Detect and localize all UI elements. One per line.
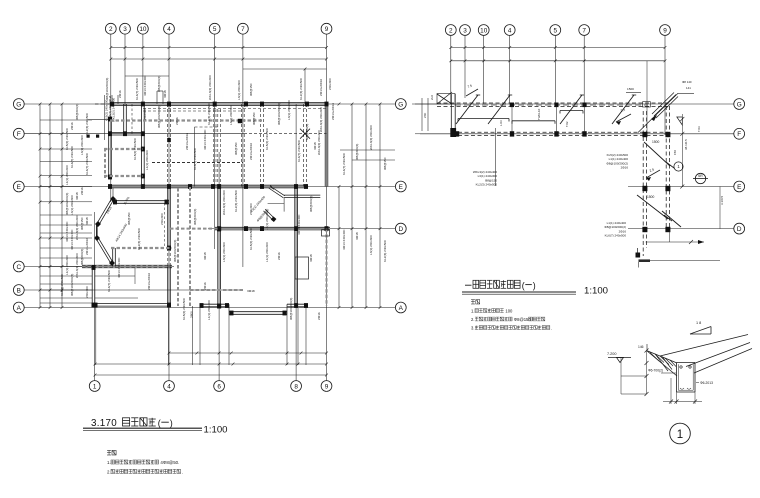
svg-text:240x400: 240x400 bbox=[143, 108, 147, 120]
svg-text:L1(1) 240x400: L1(1) 240x400 bbox=[65, 255, 69, 275]
svg-text:3Φ18: 3Φ18 bbox=[247, 289, 255, 293]
svg-text:5: 5 bbox=[554, 27, 558, 34]
svg-text:3Φ18: 3Φ18 bbox=[309, 254, 313, 262]
svg-text:A: A bbox=[399, 305, 404, 312]
svg-text:2Φ16: 2Φ16 bbox=[118, 90, 122, 98]
svg-text:WKL3(2) 240x400: WKL3(2) 240x400 bbox=[208, 75, 212, 100]
svg-text:A: A bbox=[17, 305, 22, 312]
svg-text:4Φ14 240x400: 4Φ14 240x400 bbox=[70, 229, 74, 250]
svg-text:240x400: 240x400 bbox=[160, 213, 164, 225]
svg-text:38.1/0.5: 38.1/0.5 bbox=[684, 139, 688, 150]
svg-text:3Φ18: 3Φ18 bbox=[313, 142, 317, 150]
svg-text:.: . bbox=[551, 325, 552, 330]
svg-text:2Φ16: 2Φ16 bbox=[621, 166, 629, 170]
svg-text:KL5(2) 240x500: KL5(2) 240x500 bbox=[65, 128, 69, 150]
svg-text:L1(1) 240x400: L1(1) 240x400 bbox=[207, 300, 211, 320]
svg-text:L3(1) 240x300: L3(1) 240x300 bbox=[222, 242, 226, 262]
svg-text:Φ8@150: Φ8@150 bbox=[127, 212, 131, 225]
svg-text:9: 9 bbox=[325, 383, 329, 390]
svg-text:3Φ18: 3Φ18 bbox=[85, 217, 89, 225]
svg-text:(: ( bbox=[158, 418, 161, 428]
svg-text:WKL3(2) 240x400: WKL3(2) 240x400 bbox=[222, 190, 226, 215]
svg-text:): ) bbox=[533, 280, 536, 290]
svg-text:6R: 6R bbox=[698, 174, 703, 178]
svg-text:.: . bbox=[182, 469, 183, 474]
svg-text:F: F bbox=[737, 131, 741, 138]
svg-text:L1(1) 240x400: L1(1) 240x400 bbox=[65, 165, 69, 185]
svg-text:KL6(7) 240x500: KL6(7) 240x500 bbox=[193, 148, 197, 170]
svg-text:3.: 3. bbox=[471, 325, 475, 330]
svg-text:T.03: T.03 bbox=[697, 126, 701, 132]
svg-text:2L0: 2L0 bbox=[430, 95, 434, 100]
svg-text:KL2(3) 240x500: KL2(3) 240x500 bbox=[299, 78, 303, 100]
svg-text:WKL3(2) 240x400: WKL3(2) 240x400 bbox=[75, 253, 79, 278]
svg-text:2Φ14+2Φ16: 2Φ14+2Φ16 bbox=[331, 103, 335, 120]
svg-text:1:100: 1:100 bbox=[204, 425, 228, 436]
svg-text:4: 4 bbox=[508, 27, 512, 34]
svg-text:3Φ18: 3Φ18 bbox=[163, 90, 167, 98]
svg-text:9: 9 bbox=[325, 26, 329, 33]
svg-text:D: D bbox=[398, 226, 403, 233]
svg-text:KL2(3) 240x500: KL2(3) 240x500 bbox=[137, 228, 141, 250]
svg-text:B: B bbox=[17, 287, 21, 294]
svg-text:4: 4 bbox=[167, 26, 171, 33]
svg-text:4Φ14 240x400: 4Φ14 240x400 bbox=[297, 214, 301, 235]
svg-text:2: 2 bbox=[109, 26, 113, 33]
svg-text:L3(1) 240x300: L3(1) 240x300 bbox=[70, 195, 74, 215]
svg-text:Φ8@100/200(2): Φ8@100/200(2) bbox=[173, 240, 177, 262]
svg-text:150: 150 bbox=[673, 150, 677, 155]
svg-text:Φ8@200(2): Φ8@200(2) bbox=[75, 104, 79, 120]
svg-text:1 8: 1 8 bbox=[696, 321, 701, 325]
svg-text:WKL3(2) 240x400: WKL3(2) 240x400 bbox=[75, 215, 79, 240]
svg-text:240x400: 240x400 bbox=[328, 78, 332, 90]
svg-text:1.: 1. bbox=[471, 308, 475, 313]
svg-text:1:100: 1:100 bbox=[584, 286, 608, 297]
svg-text:9: 9 bbox=[663, 27, 667, 34]
svg-text:E: E bbox=[737, 184, 741, 191]
svg-text:8: 8 bbox=[294, 383, 298, 390]
svg-text:2Φ16: 2Φ16 bbox=[277, 252, 281, 260]
svg-text:Φ8@150: Φ8@150 bbox=[252, 112, 256, 125]
svg-text:4: 4 bbox=[167, 383, 171, 390]
svg-text:KL5(2) 240x500: KL5(2) 240x500 bbox=[182, 298, 186, 320]
svg-text:3: 3 bbox=[123, 26, 127, 33]
svg-text:4Φ14 240x400: 4Φ14 240x400 bbox=[203, 129, 207, 150]
svg-text:Φ8 140: Φ8 140 bbox=[682, 80, 692, 84]
svg-text:10: 10 bbox=[139, 26, 147, 33]
svg-text:2Φ14+2Φ16: 2Φ14+2Φ16 bbox=[147, 273, 151, 290]
svg-text:2: 2 bbox=[449, 27, 453, 34]
svg-text:KL6(7) 240x500: KL6(7) 240x500 bbox=[605, 234, 627, 238]
svg-text:2Φ14+2Φ16: 2Φ14+2Φ16 bbox=[249, 143, 253, 160]
svg-text:C: C bbox=[16, 264, 21, 271]
svg-text:L3(1) 240x300: L3(1) 240x300 bbox=[229, 105, 233, 125]
svg-text:4Φ14 240x400: 4Φ14 240x400 bbox=[143, 75, 147, 96]
svg-text:KL6(7) 240x500: KL6(7) 240x500 bbox=[70, 146, 74, 168]
svg-text:L3(1) 240x300: L3(1) 240x300 bbox=[80, 135, 84, 155]
svg-text:1500: 1500 bbox=[647, 195, 655, 199]
svg-text:KL5(2) 240x500: KL5(2) 240x500 bbox=[60, 274, 64, 296]
svg-text:2Φ16: 2Φ16 bbox=[80, 187, 84, 195]
svg-text:Φ6-2013: Φ6-2013 bbox=[700, 381, 713, 385]
svg-text:6: 6 bbox=[217, 383, 221, 390]
svg-text:240x400: 240x400 bbox=[85, 286, 89, 298]
svg-text:4Φ14 240x400: 4Φ14 240x400 bbox=[65, 221, 69, 242]
svg-text:KL5(2) 240x500: KL5(2) 240x500 bbox=[249, 228, 253, 250]
svg-text:2Φ16: 2Φ16 bbox=[70, 122, 74, 130]
svg-text:KL5(2) 240x500: KL5(2) 240x500 bbox=[133, 138, 137, 160]
svg-text:100: 100 bbox=[505, 308, 513, 313]
svg-text:7: 7 bbox=[241, 26, 245, 33]
svg-text:4Φ8@50.: 4Φ8@50. bbox=[160, 460, 179, 465]
svg-text:5: 5 bbox=[213, 26, 217, 33]
svg-text:3: 3 bbox=[463, 27, 467, 34]
svg-text:Φ8@100/200(2): Φ8@100/200(2) bbox=[65, 193, 69, 215]
svg-text:KL6(7) 240x500: KL6(7) 240x500 bbox=[135, 78, 139, 100]
svg-text:L3(1) 240x300: L3(1) 240x300 bbox=[237, 80, 241, 100]
svg-text:3Φ18: 3Φ18 bbox=[355, 232, 359, 240]
svg-text:2.: 2. bbox=[471, 317, 475, 322]
svg-text:Φ8@200(2): Φ8@200(2) bbox=[309, 196, 313, 212]
svg-text:E: E bbox=[17, 184, 21, 191]
svg-text:Φ8@150: Φ8@150 bbox=[383, 157, 387, 170]
svg-text:Φ8@100/200(2): Φ8@100/200(2) bbox=[277, 103, 281, 125]
svg-text:2Φ16: 2Φ16 bbox=[317, 312, 321, 320]
svg-text:WKL3(2) 240x400: WKL3(2) 240x400 bbox=[317, 130, 321, 155]
svg-text:L.03: L.03 bbox=[499, 120, 503, 126]
svg-text:KL6(7) 240x500: KL6(7) 240x500 bbox=[342, 153, 346, 175]
svg-text:WKL3(2) 240x400: WKL3(2) 240x400 bbox=[369, 125, 373, 150]
svg-text:2Φ14+2Φ16: 2Φ14+2Φ16 bbox=[85, 238, 89, 255]
svg-text:KL2(3) 240x500: KL2(3) 240x500 bbox=[234, 190, 238, 212]
svg-text:146: 146 bbox=[638, 345, 644, 349]
svg-text:Φ8@200(2): Φ8@200(2) bbox=[80, 249, 84, 265]
svg-text:KL2(3) 240x500: KL2(3) 240x500 bbox=[383, 240, 387, 262]
svg-text:KL6(7) 240x500: KL6(7) 240x500 bbox=[107, 270, 111, 292]
svg-text:1.: 1. bbox=[107, 460, 111, 465]
svg-text:TWKL10: TWKL10 bbox=[537, 108, 541, 120]
svg-text:D: D bbox=[737, 226, 742, 233]
svg-text:): ) bbox=[170, 418, 173, 428]
svg-text:L3(1) 240x300: L3(1) 240x300 bbox=[369, 235, 373, 255]
svg-text:Φ8@100/200(2): Φ8@100/200(2) bbox=[157, 106, 161, 128]
svg-text:Φ8@100/200(2): Φ8@100/200(2) bbox=[70, 274, 74, 296]
svg-text:3.170: 3.170 bbox=[91, 418, 117, 429]
svg-text:KL2(3) 240x500: KL2(3) 240x500 bbox=[85, 113, 89, 135]
svg-text:Φ8@150: Φ8@150 bbox=[80, 217, 84, 230]
svg-text:KL2(3) 240x500: KL2(3) 240x500 bbox=[207, 103, 211, 125]
svg-text:1500: 1500 bbox=[627, 87, 634, 91]
svg-text:Φ8@200(2): Φ8@200(2) bbox=[355, 144, 359, 160]
svg-text:G: G bbox=[737, 101, 742, 108]
svg-text:2800: 2800 bbox=[190, 311, 194, 318]
svg-text:240: 240 bbox=[423, 113, 427, 118]
svg-text:Φ8@150: Φ8@150 bbox=[249, 83, 253, 96]
svg-text:2Φ16: 2Φ16 bbox=[175, 117, 179, 125]
svg-text:Φ8@200(2): Φ8@200(2) bbox=[157, 76, 161, 92]
svg-text:L1(1) 240x400: L1(1) 240x400 bbox=[145, 150, 149, 170]
svg-text:2Φ16: 2Φ16 bbox=[203, 282, 207, 290]
svg-text:Φ8@150: Φ8@150 bbox=[234, 142, 238, 155]
svg-text:G: G bbox=[16, 101, 21, 108]
svg-text:1: 1 bbox=[677, 429, 683, 441]
svg-text:Φ6-700(2): Φ6-700(2) bbox=[648, 369, 663, 373]
svg-text:Φ8@100/200(2): Φ8@100/200(2) bbox=[289, 298, 293, 320]
svg-text:7.200: 7.200 bbox=[607, 352, 617, 356]
svg-text:4Φ14 240x400: 4Φ14 240x400 bbox=[117, 257, 121, 278]
svg-text:1: 1 bbox=[93, 383, 97, 390]
svg-text:2.: 2. bbox=[107, 469, 111, 474]
svg-text:F: F bbox=[17, 131, 21, 138]
svg-text:3.1/0.5: 3.1/0.5 bbox=[720, 195, 724, 205]
svg-text:(: ( bbox=[522, 280, 525, 290]
svg-text:7: 7 bbox=[582, 27, 586, 34]
svg-text:3Φ18: 3Φ18 bbox=[203, 252, 207, 260]
svg-text:2Φ14+2Φ16: 2Φ14+2Φ16 bbox=[185, 133, 189, 150]
svg-text:141: 141 bbox=[686, 86, 691, 90]
svg-text:Φ8@200(2): Φ8@200(2) bbox=[305, 124, 309, 140]
svg-text:T.02: T.02 bbox=[565, 121, 569, 127]
svg-text:G: G bbox=[398, 101, 403, 108]
svg-text:KL5(2) 240x500: KL5(2) 240x500 bbox=[265, 128, 269, 150]
svg-text:2Φ14+2Φ16: 2Φ14+2Φ16 bbox=[319, 79, 323, 96]
svg-text:10: 10 bbox=[480, 27, 488, 34]
svg-text:E: E bbox=[399, 184, 403, 191]
svg-text:KL6(7) 240x500: KL6(7) 240x500 bbox=[297, 140, 301, 162]
svg-text:L1(1) 240x400: L1(1) 240x400 bbox=[265, 242, 269, 262]
svg-text:4Φ14 240x400: 4Φ14 240x400 bbox=[342, 229, 346, 250]
svg-text:Φ8@200(2): Φ8@200(2) bbox=[193, 209, 197, 225]
svg-text:1500: 1500 bbox=[652, 140, 660, 144]
svg-text:3Φ18: 3Φ18 bbox=[75, 192, 79, 200]
svg-text:L3(1) 240x300: L3(1) 240x300 bbox=[287, 100, 291, 120]
svg-text:KL2(3) 240x500: KL2(3) 240x500 bbox=[476, 183, 498, 187]
svg-text:KL6(7) 240x500: KL6(7) 240x500 bbox=[85, 153, 89, 175]
svg-text:WKL3(2) 240x400: WKL3(2) 240x400 bbox=[319, 107, 323, 132]
